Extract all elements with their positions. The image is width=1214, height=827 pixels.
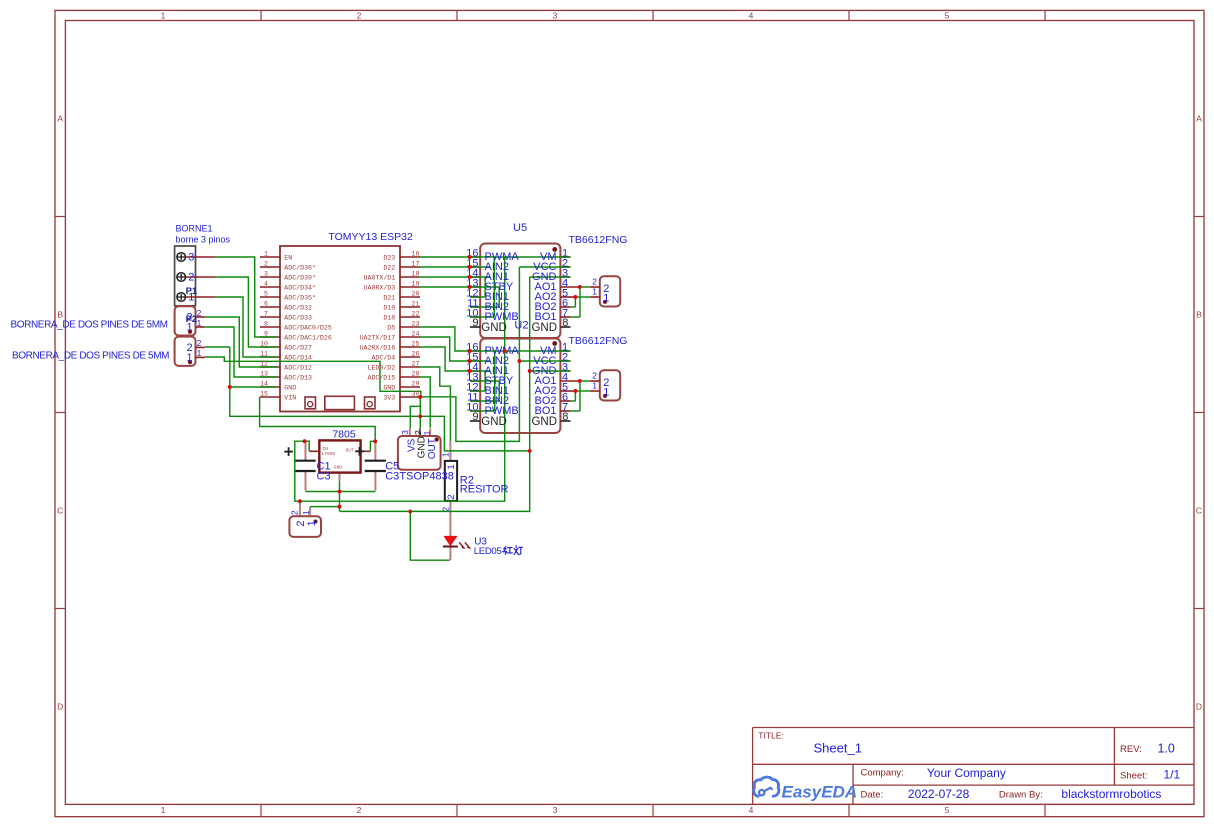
svg-text:P2: P2: [186, 314, 198, 325]
svg-text:20: 20: [412, 290, 420, 297]
svg-text:ADC/D36*: ADC/D36*: [284, 264, 316, 271]
svg-text:GND: GND: [383, 384, 395, 391]
svg-text:D: D: [57, 702, 63, 712]
svg-text:borne 3 pinos: borne 3 pinos: [176, 235, 231, 245]
svg-text:7: 7: [264, 310, 268, 317]
svg-text:GND: GND: [334, 464, 343, 470]
svg-text:U5: U5: [513, 222, 527, 234]
svg-text:8: 8: [264, 320, 268, 327]
svg-text:16: 16: [412, 250, 420, 257]
svg-text:GND: GND: [481, 416, 507, 428]
svg-text:BORNERA_DE DOS PINES DE 5MM: BORNERA_DE DOS PINES DE 5MM: [12, 350, 170, 361]
svg-text:BORNERA_DE DOS PINES DE 5MM: BORNERA_DE DOS PINES DE 5MM: [11, 319, 169, 330]
svg-text:7805: 7805: [332, 429, 356, 441]
svg-text:D: D: [1196, 702, 1202, 712]
svg-text:blackstormrobotics: blackstormrobotics: [1061, 787, 1161, 801]
svg-text:ADC/D32: ADC/D32: [284, 304, 312, 311]
svg-text:11: 11: [260, 350, 268, 357]
svg-text:C3: C3: [317, 470, 331, 482]
svg-text:10: 10: [260, 340, 268, 347]
svg-text:UA0RX/D3: UA0RX/D3: [364, 284, 396, 291]
svg-text:ADC/D15: ADC/D15: [367, 374, 395, 381]
svg-text:1: 1: [592, 287, 597, 297]
svg-text:B: B: [1196, 310, 1202, 320]
svg-text:5: 5: [945, 805, 950, 815]
svg-text:UA2TX/D17: UA2TX/D17: [360, 334, 396, 341]
svg-text:TB6612FNG: TB6612FNG: [569, 234, 628, 246]
svg-text:UA2RX/D16: UA2RX/D16: [360, 344, 396, 351]
svg-text:30: 30: [412, 390, 420, 397]
svg-text:1: 1: [306, 520, 318, 526]
svg-text:ADC/D33: ADC/D33: [284, 314, 312, 321]
svg-text:2: 2: [188, 271, 194, 283]
svg-text:A: A: [57, 114, 63, 124]
svg-text:Date:: Date:: [861, 789, 884, 800]
svg-text:2: 2: [592, 277, 597, 287]
svg-text:2: 2: [264, 260, 268, 267]
svg-text:EN: EN: [284, 254, 292, 261]
svg-text:1: 1: [161, 11, 166, 21]
svg-text:1.0: 1.0: [1158, 742, 1175, 756]
svg-text:3: 3: [188, 251, 194, 263]
svg-text:1: 1: [197, 348, 202, 358]
svg-text:Sheet:: Sheet:: [1120, 770, 1147, 781]
svg-text:ADC/D39*: ADC/D39*: [284, 274, 316, 281]
svg-text:1: 1: [603, 386, 609, 398]
svg-text:2: 2: [197, 338, 202, 348]
svg-text:TOMYY13 ESP32: TOMYY13 ESP32: [328, 231, 413, 243]
svg-text:1: 1: [197, 318, 202, 328]
svg-text:19: 19: [412, 280, 420, 287]
svg-text:15: 15: [260, 390, 268, 397]
svg-text:ADC/D35*: ADC/D35*: [284, 294, 316, 301]
svg-text:2: 2: [357, 11, 362, 21]
svg-text:D19: D19: [383, 304, 395, 311]
svg-text:L7805: L7805: [322, 451, 336, 457]
svg-text:RESITOR: RESITOR: [460, 484, 509, 496]
svg-text:D5: D5: [387, 324, 395, 331]
svg-text:EasyEDA: EasyEDA: [782, 782, 858, 801]
svg-text:Drawn By:: Drawn By:: [999, 789, 1043, 800]
svg-text:8: 8: [562, 411, 568, 423]
svg-text:TB6612FNG: TB6612FNG: [569, 335, 628, 347]
svg-text:24: 24: [412, 330, 420, 337]
svg-text:GND: GND: [531, 416, 557, 428]
svg-text:1: 1: [592, 381, 597, 391]
svg-text:2: 2: [440, 507, 450, 512]
svg-text:1: 1: [422, 430, 432, 435]
svg-text:5: 5: [264, 290, 268, 297]
svg-text:UA0TX/D1: UA0TX/D1: [364, 274, 396, 281]
svg-text:TSOP4838: TSOP4838: [399, 470, 453, 482]
svg-text:1: 1: [603, 292, 609, 304]
svg-text:3V3: 3V3: [383, 394, 395, 401]
svg-text:LED05-: LED05-: [474, 546, 505, 557]
svg-text:1: 1: [440, 452, 450, 457]
svg-text:8: 8: [562, 317, 568, 329]
svg-text:2: 2: [290, 510, 300, 515]
svg-text:P1: P1: [186, 286, 198, 297]
svg-text:TITLE:: TITLE:: [758, 730, 784, 740]
svg-text:Company:: Company:: [861, 767, 904, 778]
svg-text:D21: D21: [383, 294, 395, 301]
svg-text:22: 22: [412, 310, 420, 317]
svg-text:26: 26: [412, 350, 420, 357]
svg-text:29: 29: [412, 380, 420, 387]
svg-text:VIN: VIN: [284, 394, 296, 401]
svg-text:ADC/D12: ADC/D12: [284, 364, 312, 371]
svg-text:17: 17: [412, 260, 420, 267]
svg-text:1: 1: [187, 352, 193, 364]
svg-text:ADC/D34*: ADC/D34*: [284, 284, 316, 291]
svg-text:A: A: [1196, 114, 1202, 124]
svg-text:BORNE1: BORNE1: [176, 224, 213, 234]
svg-text:C: C: [1196, 506, 1202, 516]
svg-text:3: 3: [553, 11, 558, 21]
svg-text:2: 2: [446, 494, 457, 499]
svg-text:12: 12: [260, 360, 268, 367]
svg-text:2: 2: [592, 371, 597, 381]
svg-text:4: 4: [749, 11, 754, 21]
svg-text:ADC/DAC1/D26: ADC/DAC1/D26: [284, 334, 332, 341]
svg-text:Your Company: Your Company: [927, 766, 1006, 780]
svg-text:1: 1: [264, 250, 268, 257]
svg-text:D22: D22: [383, 264, 395, 271]
svg-text:3: 3: [264, 270, 268, 277]
svg-text:LED0/D2: LED0/D2: [367, 364, 395, 371]
svg-text:25: 25: [412, 340, 420, 347]
svg-text:1: 1: [301, 510, 311, 515]
svg-text:27: 27: [412, 360, 420, 367]
svg-text:C: C: [57, 506, 63, 516]
svg-text:1: 1: [161, 805, 166, 815]
svg-text:REV:: REV:: [1120, 744, 1142, 755]
svg-text:3: 3: [400, 430, 410, 435]
svg-text:D18: D18: [383, 314, 395, 321]
svg-text:ADC/DAC0/D25: ADC/DAC0/D25: [284, 324, 332, 331]
svg-text:U2: U2: [514, 320, 528, 332]
svg-text:4: 4: [264, 280, 268, 287]
svg-text:2: 2: [197, 308, 202, 318]
svg-text:23: 23: [412, 320, 420, 327]
svg-text:ADC/D4: ADC/D4: [371, 354, 395, 361]
svg-text:13: 13: [260, 370, 268, 377]
svg-text:6: 6: [264, 300, 268, 307]
svg-text:14: 14: [260, 380, 268, 387]
svg-text:GND: GND: [284, 384, 296, 391]
svg-text:ADC/D14: ADC/D14: [284, 354, 312, 361]
svg-text:2: 2: [357, 805, 362, 815]
svg-text:3: 3: [553, 805, 558, 815]
svg-text:1: 1: [446, 464, 457, 469]
svg-text:C3: C3: [385, 470, 399, 482]
svg-text:1/1: 1/1: [1164, 767, 1181, 781]
svg-text:ADC/D27: ADC/D27: [284, 344, 312, 351]
svg-text:2022-07-28: 2022-07-28: [908, 787, 970, 801]
svg-text:ADC/D13: ADC/D13: [284, 374, 312, 381]
svg-text:4: 4: [749, 805, 754, 815]
svg-text:GND: GND: [531, 322, 557, 334]
svg-text:OUT: OUT: [427, 438, 438, 459]
svg-text:21: 21: [412, 300, 420, 307]
svg-text:Sheet_1: Sheet_1: [814, 741, 862, 756]
svg-text:9: 9: [472, 317, 478, 329]
svg-text:9: 9: [264, 330, 268, 337]
svg-text:18: 18: [412, 270, 420, 277]
svg-text:9: 9: [472, 411, 478, 423]
svg-text:B: B: [57, 310, 63, 320]
svg-text:OUT: OUT: [346, 447, 355, 453]
svg-text:5: 5: [945, 11, 950, 21]
svg-text:GND: GND: [481, 322, 507, 334]
svg-text:D23: D23: [383, 254, 395, 261]
svg-text:28: 28: [412, 370, 420, 377]
